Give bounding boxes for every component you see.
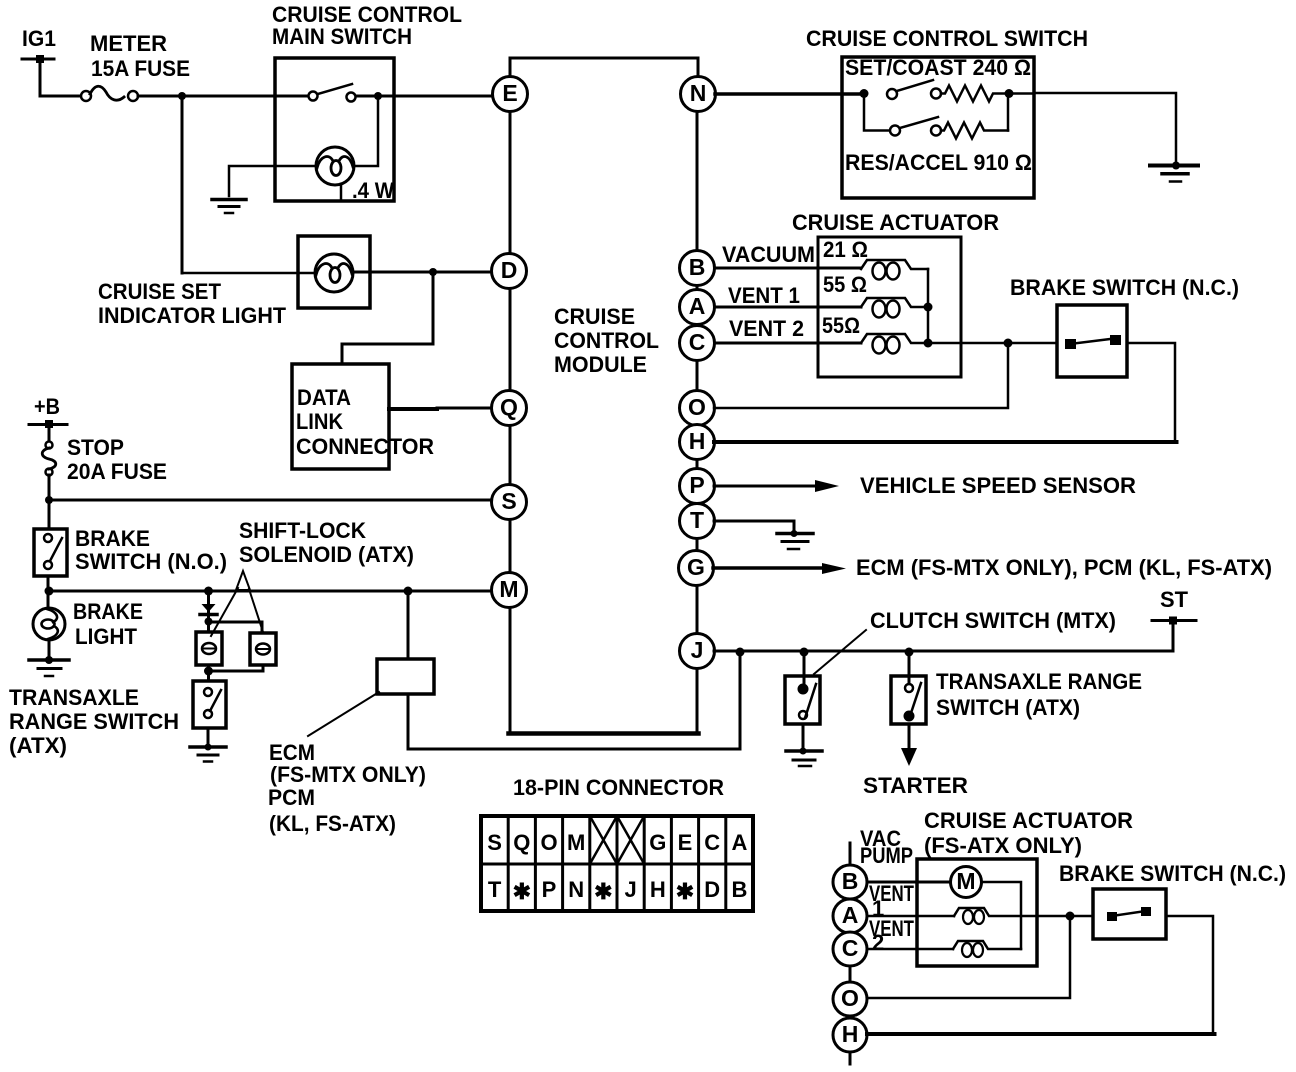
crossed cell 6	[617, 816, 644, 864]
junction shift-lock on M wire	[204, 587, 213, 596]
svg-text:55 Ω: 55 Ω	[823, 272, 867, 297]
brake switch (N.C.) box	[1057, 305, 1127, 377]
svg-text:S: S	[487, 830, 502, 855]
wire down to indicator light	[181, 96, 184, 273]
label CRUISE CONTROL MAIN SWITCH	[272, 2, 462, 49]
pin S	[492, 485, 527, 520]
wire C2 to O2	[849, 966, 852, 982]
svg-text:B: B	[842, 868, 859, 894]
svg-text:N: N	[568, 877, 584, 902]
junction main switch lamp branch	[374, 92, 382, 100]
junction at fuse output	[178, 92, 186, 100]
wire stub above terminal B2	[849, 843, 852, 865]
wire A2 to coil	[867, 915, 954, 918]
svg-text:BRAKE: BRAKE	[73, 599, 143, 624]
svg-text:VENT 1: VENT 1	[728, 283, 800, 308]
svg-text:J: J	[624, 877, 636, 902]
svg-text:M: M	[956, 868, 975, 894]
cruise actuator (FS-ATX) box	[917, 859, 1037, 966]
arrow to starter	[901, 748, 917, 766]
clutch switch contacts	[799, 684, 817, 719]
data link connector box	[292, 364, 389, 469]
fuse STOP 20A	[42, 442, 56, 476]
svg-text:.4 W: .4 W	[352, 178, 394, 203]
svg-text:55Ω: 55Ω	[822, 313, 860, 338]
cruise control main switch box	[275, 58, 394, 201]
svg-text:CONTROL: CONTROL	[554, 328, 659, 353]
wire pin T to ground	[714, 521, 794, 533]
svg-text:15A FUSE: 15A FUSE	[91, 56, 190, 81]
svg-text:SWITCH (ATX): SWITCH (ATX)	[936, 695, 1080, 720]
svg-text:18-PIN CONNECTOR: 18-PIN CONNECTOR	[513, 775, 724, 800]
junction transaxle range switch	[905, 648, 914, 657]
svg-text:D: D	[501, 257, 518, 283]
pin H	[680, 425, 715, 460]
wire branch to solenoid 2	[209, 622, 263, 633]
resistor 910 ohm	[941, 123, 1008, 139]
svg-text:T: T	[690, 507, 704, 533]
crossed cell 5	[590, 816, 617, 864]
pin M	[492, 573, 527, 608]
svg-text:CRUISE ACTUATOR: CRUISE ACTUATOR	[924, 808, 1133, 833]
svg-text:SOLENOID (ATX): SOLENOID (ATX)	[239, 542, 414, 567]
shift-lock solenoid coil 1 box	[196, 632, 222, 665]
wire data link connector to pin Q	[389, 407, 437, 411]
svg-text:G: G	[687, 554, 705, 580]
svg-text:RES/ACCEL 910 Ω: RES/ACCEL 910 Ω	[845, 150, 1032, 175]
pin A	[680, 290, 715, 325]
svg-text:LIGHT: LIGHT	[75, 624, 138, 649]
shift-lock solenoid coil 2 box	[250, 633, 276, 665]
fuse METER 15A	[81, 86, 138, 101]
transaxle range switch (shift-lock) box	[193, 681, 226, 728]
wire pin P to arrow	[714, 485, 817, 488]
wire stub below H2	[849, 1052, 852, 1064]
svg-text:BRAKE: BRAKE	[75, 526, 150, 551]
svg-text:S: S	[501, 488, 516, 514]
label SHIFT-LOCK SOLENOID (ATX)	[239, 518, 414, 567]
svg-text:✱: ✱	[513, 879, 531, 904]
coil vent1 (FS-ATX)	[954, 908, 1037, 924]
junction O branch	[1004, 339, 1013, 348]
svg-text:MODULE: MODULE	[554, 352, 647, 377]
node +B	[29, 394, 67, 441]
pin T	[680, 504, 715, 539]
wire pin G to arrow	[713, 566, 824, 570]
brake switch (N.O.) box	[34, 529, 67, 576]
svg-text:C: C	[689, 329, 706, 355]
node IG1	[22, 26, 56, 96]
junction ECM return	[736, 648, 745, 657]
terminal O2	[833, 982, 867, 1016]
label VAC PUMP	[860, 826, 913, 868]
svg-text:D: D	[704, 877, 720, 902]
junction on D wire	[429, 268, 437, 276]
svg-text:Q: Q	[500, 394, 518, 420]
svg-text:TRANSAXLE: TRANSAXLE	[9, 685, 139, 710]
coil vent2 55 ohm	[861, 334, 928, 354]
pin G	[679, 551, 714, 586]
arrow ECM PCM	[822, 563, 846, 574]
svg-text:O: O	[688, 394, 706, 420]
svg-text:A: A	[689, 293, 706, 319]
terminal H2	[833, 1018, 867, 1052]
svg-text:B: B	[689, 254, 706, 280]
ground main switch	[212, 200, 246, 214]
wire junction to ECM box	[407, 591, 410, 659]
wire brake switch to M row	[47, 576, 50, 607]
brake light lamp	[33, 608, 65, 640]
svg-text:H: H	[650, 877, 666, 902]
wire brake switch to pin H	[714, 343, 1175, 442]
label TRANSAXLE RANGE SWITCH (ATX) right	[936, 669, 1142, 720]
cruise control module label	[554, 304, 659, 377]
svg-text:✱: ✱	[594, 879, 612, 904]
junction on M wire	[45, 587, 54, 596]
svg-text:C: C	[842, 935, 859, 961]
label TRANSAXLE RANGE SWITCH (ATX)	[9, 685, 179, 758]
svg-text:IG1: IG1	[22, 26, 56, 51]
wire junction to clutch switch	[803, 652, 806, 689]
junction set/coast input	[860, 89, 869, 98]
wire pin N to switch box	[715, 92, 864, 96]
svg-text:Q: Q	[513, 830, 530, 855]
svg-text:(FS-ATX ONLY): (FS-ATX ONLY)	[924, 833, 1082, 858]
svg-text:CONNECTOR: CONNECTOR	[296, 434, 434, 459]
label BRAKE SWITCH (N.O.)	[75, 526, 227, 574]
main switch contacts	[309, 84, 356, 102]
ground clutch switch	[786, 748, 822, 767]
svg-text:E: E	[678, 830, 693, 855]
svg-text:SWITCH (N.O.): SWITCH (N.O.)	[75, 549, 227, 574]
svg-text:ST: ST	[1160, 587, 1189, 612]
junction set/coast output	[1005, 89, 1014, 98]
transaxle range switch (shift-lock) contacts	[204, 688, 221, 718]
ground cruise control switch	[1150, 162, 1198, 182]
wire lamp to pin D	[353, 271, 491, 274]
svg-text:J: J	[691, 637, 704, 663]
junction diode output	[205, 618, 213, 626]
leader pointer to solenoids	[211, 571, 263, 636]
wire IG1 to fuse	[40, 95, 81, 98]
transaxle range switch contacts	[905, 683, 922, 721]
junction ECM branch on M wire	[404, 587, 413, 596]
svg-text:P: P	[542, 877, 557, 902]
svg-text:VENT 2: VENT 2	[729, 316, 804, 341]
svg-text:CRUISE SET: CRUISE SET	[98, 279, 222, 304]
motor M	[951, 867, 982, 898]
svg-text:O: O	[841, 985, 859, 1011]
wire junction down to lamp	[354, 96, 378, 166]
svg-text:T: T	[488, 877, 502, 902]
svg-text:CRUISE CONTROL SWITCH: CRUISE CONTROL SWITCH	[806, 26, 1088, 51]
cruise control switch box	[842, 57, 1034, 198]
pin D	[492, 254, 527, 289]
pin B	[680, 251, 715, 286]
wire switch to pin E	[356, 95, 492, 98]
wire pin J to ST	[714, 621, 1173, 652]
cruise set indicator light box	[298, 236, 370, 308]
pin N	[681, 77, 716, 112]
svg-text:BRAKE SWITCH (N.C.): BRAKE SWITCH (N.C.)	[1059, 861, 1286, 886]
ground pin T	[777, 530, 813, 549]
svg-text:✱: ✱	[676, 879, 694, 904]
svg-text:BRAKE SWITCH (N.C.): BRAKE SWITCH (N.C.)	[1010, 275, 1239, 300]
svg-text:RANGE SWITCH: RANGE SWITCH	[9, 709, 179, 734]
clutch switch box	[785, 676, 820, 724]
wire branch to res/accel	[864, 94, 890, 131]
label DATA LINK CONNECTOR	[296, 385, 434, 459]
label CRUISE ACTUATOR (FS-ATX ONLY)	[924, 808, 1133, 858]
label VENT 2 lower	[869, 916, 914, 955]
transaxle range switch (ATX) box	[891, 676, 926, 724]
pin E	[493, 77, 528, 112]
svg-text:P: P	[689, 472, 704, 498]
connector pin letters row 1	[487, 830, 747, 855]
wire feed to lamp	[182, 272, 315, 275]
pin O	[680, 391, 715, 426]
svg-text:CLUTCH SWITCH (MTX): CLUTCH SWITCH (MTX)	[870, 608, 1116, 633]
svg-text:INDICATOR LIGHT: INDICATOR LIGHT	[98, 303, 287, 328]
svg-text:CRUISE: CRUISE	[554, 304, 635, 329]
diode D1	[200, 604, 217, 615]
svg-text:LINK: LINK	[296, 409, 343, 434]
wire junction to data link connector	[342, 272, 433, 364]
wire junction to transaxle switch	[908, 652, 911, 688]
pin P	[680, 469, 715, 504]
svg-text:(KL, FS-ATX): (KL, FS-ATX)	[269, 811, 396, 836]
svg-text:SET/COAST 240 Ω: SET/COAST 240 Ω	[845, 55, 1031, 80]
svg-text:PCM: PCM	[268, 785, 315, 810]
pin J	[680, 634, 715, 669]
svg-text:M: M	[567, 830, 585, 855]
svg-text:ECM (FS-MTX ONLY), PCM (KL, FS: ECM (FS-MTX ONLY), PCM (KL, FS-ATX)	[856, 555, 1272, 580]
junction coil2 common	[924, 303, 933, 312]
junction clutch switch	[800, 648, 809, 657]
ground brake light	[29, 656, 69, 676]
svg-text:H: H	[689, 428, 706, 454]
svg-text:VEHICLE SPEED SENSOR: VEHICLE SPEED SENSOR	[860, 473, 1136, 498]
label ECM (FS-MTX ONLY) PCM (KL, FS-ATX)	[268, 740, 426, 836]
set/coast switch contacts	[887, 80, 941, 99]
svg-text:21 Ω: 21 Ω	[823, 237, 868, 262]
label CRUISE SET INDICATOR LIGHT	[98, 279, 287, 328]
terminal B2	[833, 865, 867, 899]
wire lamp to ground	[48, 640, 51, 660]
wire ECM box to J row	[408, 652, 740, 749]
wire B2 to motor	[867, 881, 951, 884]
svg-text:MAIN SWITCH: MAIN SWITCH	[272, 24, 412, 49]
wire coil1 to common	[927, 269, 930, 343]
wire junction down	[207, 591, 210, 632]
svg-text:G: G	[649, 830, 666, 855]
pin C	[680, 326, 715, 361]
coil vent1 55 ohm	[861, 298, 928, 318]
wire pin O to junction	[714, 343, 1008, 408]
brake switch (N.C.) lower box	[1093, 889, 1166, 939]
junction to S wire	[45, 496, 53, 504]
wire switch box to ground	[1009, 93, 1176, 166]
svg-text:E: E	[502, 80, 517, 106]
svg-text:A: A	[731, 830, 747, 855]
svg-text:(ATX): (ATX)	[9, 733, 67, 758]
svg-text:C: C	[704, 830, 720, 855]
18-pin connector grid	[481, 816, 753, 911]
svg-text:O: O	[540, 830, 557, 855]
ECM box	[377, 659, 434, 694]
svg-text:STOP: STOP	[67, 435, 124, 460]
svg-text:H: H	[842, 1021, 859, 1047]
wire clutch switch to ground	[802, 724, 805, 751]
junction O2 branch	[1066, 912, 1075, 921]
leader line to ECM box	[308, 692, 379, 736]
label METER 15A FUSE	[90, 31, 190, 81]
terminal C2	[833, 932, 867, 966]
svg-text:VACUUM: VACUUM	[722, 242, 815, 267]
wire fuse to main switch	[138, 95, 313, 98]
svg-text:(FS-MTX ONLY): (FS-MTX ONLY)	[270, 762, 426, 787]
pin Q	[492, 391, 527, 426]
wire pin A to coil	[715, 306, 861, 309]
wire O2 to junction	[867, 916, 1070, 998]
cruise control module outline	[510, 58, 698, 732]
wire pin C to coil	[715, 342, 861, 345]
wire box to brake switch 2	[1037, 915, 1093, 918]
svg-text:20A FUSE: 20A FUSE	[67, 459, 167, 484]
junction solenoid outputs	[204, 667, 213, 676]
svg-text:CRUISE ACTUATOR: CRUISE ACTUATOR	[792, 210, 999, 235]
connector pin letters row 2	[488, 877, 747, 904]
wire C2 to coil	[867, 948, 953, 951]
wire lamp to ground	[229, 166, 316, 196]
svg-text:DATA: DATA	[297, 385, 351, 410]
wire to pin M	[49, 590, 491, 593]
svg-text:PUMP: PUMP	[860, 843, 913, 868]
svg-text:SHIFT-LOCK: SHIFT-LOCK	[239, 518, 366, 543]
junction coil3 common	[924, 339, 933, 348]
wire to starter arrow	[908, 724, 911, 750]
svg-text:B: B	[731, 877, 747, 902]
res/accel switch contacts	[890, 117, 941, 136]
brake switch lower contacts	[1107, 907, 1151, 921]
svg-text:METER: METER	[90, 31, 167, 56]
lamp cruise set indicator	[315, 254, 353, 292]
cruise actuator box	[818, 237, 961, 377]
wire common to brake switch	[928, 342, 1057, 345]
coil vent2 (FS-ATX)	[953, 941, 1021, 957]
wire motor to common	[982, 882, 1022, 949]
svg-text:A: A	[842, 902, 859, 928]
lamp main switch illumination	[316, 147, 354, 201]
wire solenoid2 output	[209, 665, 264, 681]
brake switch (N.C.) contacts	[1065, 335, 1121, 349]
label BRAKE LIGHT	[73, 599, 143, 649]
svg-text:+B: +B	[34, 394, 60, 419]
wire fuse down	[48, 475, 51, 529]
arrow vehicle speed sensor	[815, 480, 839, 492]
wire res/accel output up	[1007, 94, 1010, 131]
coil vacuum 21 ohm	[861, 260, 928, 280]
leader line CLUTCH SWITCH	[814, 630, 866, 674]
ground shift-lock	[190, 744, 226, 762]
label STOP 20A FUSE	[67, 435, 167, 484]
wire to pin S	[49, 499, 491, 502]
svg-text:2: 2	[872, 930, 884, 955]
label VENT 1 lower	[869, 881, 914, 921]
node ST	[1152, 587, 1196, 625]
wire brake switch 2 to H2	[867, 916, 1213, 1034]
wire to ground	[207, 728, 210, 747]
brake switch (N.O.) contacts	[44, 534, 62, 569]
svg-text:TRANSAXLE RANGE: TRANSAXLE RANGE	[936, 669, 1142, 694]
svg-text:M: M	[499, 576, 518, 602]
svg-text:STARTER: STARTER	[863, 773, 968, 798]
resistor 240 ohm	[941, 86, 1009, 102]
svg-text:N: N	[690, 80, 707, 106]
wire pin B to coil	[715, 267, 861, 270]
terminal A2	[833, 899, 867, 933]
